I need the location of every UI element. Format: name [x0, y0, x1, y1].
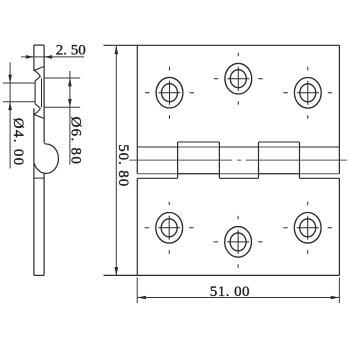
svg-text:50. 80: 50. 80	[115, 144, 131, 187]
hole top-mid outer	[225, 63, 252, 94]
lower leaf seam line	[34, 177, 44, 179]
countersink mouth vertical	[41, 79, 43, 108]
dim line 50.80	[115, 45, 117, 275]
leaf bottom edge	[34, 274, 44, 276]
hole bottom-left ticks	[145, 202, 194, 254]
pin centerline	[130, 159, 347, 161]
hole top-left cross	[159, 81, 181, 105]
countersink cone upper diagonal	[34, 67, 44, 84]
svg-text:51. 00: 51. 00	[210, 284, 250, 300]
ext line Ø6.8 lower	[45, 106, 81, 108]
arrow Ø4 lower	[8, 102, 12, 110]
arrow Ø6.8 upper	[68, 78, 72, 86]
arrow Ø4 upper	[8, 75, 12, 83]
dim line 2.50	[21, 56, 84, 58]
countersink bore vertical	[34, 83, 36, 102]
hole bottom-right inner	[300, 219, 316, 237]
svg-text:2. 50: 2. 50	[56, 43, 86, 59]
hole bottom-mid ticks	[214, 216, 263, 268]
band dark segs y146.5	[137, 146, 339, 148]
arrow 2.50 right	[44, 55, 52, 59]
arrow 50.80 bottom	[115, 267, 119, 276]
ext line Ø4 upper	[3, 82, 35, 84]
knuckle vertical 3	[258, 142, 260, 178]
hole bottom-mid inner	[230, 233, 246, 251]
ext line 51 left	[136, 278, 138, 304]
hole bottom-left inner	[161, 219, 177, 237]
arrow 51 right	[331, 296, 340, 300]
hole top-mid cross	[227, 67, 249, 91]
hole top-left inner	[162, 84, 178, 102]
hole top-left ticks	[145, 67, 194, 119]
hole top-right cross	[297, 81, 319, 105]
knuckle top segs y141.5	[178, 141, 300, 143]
lower leaf right edge	[43, 174, 45, 276]
knuckle vertical 2	[218, 142, 220, 178]
plate right edge upper	[338, 45, 340, 173]
knuckle vertical 4	[299, 142, 301, 178]
dim line Ø4	[9, 63, 11, 169]
hole top-mid ticks	[214, 53, 263, 105]
knuckle band light line upper	[137, 146, 339, 148]
plate right edge lower	[338, 178, 340, 275]
hole top-right inner	[300, 84, 316, 102]
knuckle band light line lower	[137, 173, 339, 175]
plate left edge lower	[136, 178, 138, 275]
countersink cone lower diagonal	[34, 102, 44, 119]
plate left edge upper	[136, 45, 138, 173]
leaf top edge	[34, 44, 44, 46]
hole top-right ticks	[283, 67, 332, 119]
knuckle hook arc	[44, 141, 47, 144]
hole bottom-right cross	[297, 216, 319, 240]
hole bottom-mid cross	[227, 230, 249, 254]
plate top edge with left extension	[104, 44, 340, 46]
leaf left edge lower	[33, 108, 35, 275]
knuckle barrel circle	[34, 144, 58, 173]
arrow 51 left	[137, 296, 146, 300]
knuckle bottom segs y177.8	[137, 177, 339, 179]
ext line Ø4 lower	[3, 101, 35, 103]
hole bottom-left cross	[158, 216, 180, 240]
ext line Ø6.8 upper	[45, 77, 81, 79]
arrow 50.80 top	[115, 45, 119, 54]
knuckle vertical 1	[177, 142, 179, 178]
svg-text:Ø6. 80: Ø6. 80	[67, 117, 83, 166]
hole top-right outer	[294, 78, 321, 109]
svg-text:Ø4. 00: Ø4. 00	[10, 118, 26, 167]
leaf left edge	[33, 45, 35, 70]
hole top-mid inner	[230, 70, 246, 88]
plate bottom edge with left extension	[104, 274, 340, 276]
leaf right edge	[43, 45, 45, 141]
hole bottom-mid outer	[225, 227, 252, 258]
ext line 51 right	[338, 278, 340, 304]
hole bottom-right outer	[294, 213, 321, 244]
hole bottom-right ticks	[283, 202, 332, 254]
band dark segs y173.2	[178, 173, 300, 175]
dim line Ø6.8	[69, 71, 71, 165]
hole bottom-left outer	[156, 213, 183, 244]
arrow 2.50 left	[26, 55, 34, 59]
hole top-left outer	[156, 77, 183, 108]
arrow Ø6.8 lower	[68, 99, 72, 107]
dim line 51.00	[137, 297, 339, 299]
